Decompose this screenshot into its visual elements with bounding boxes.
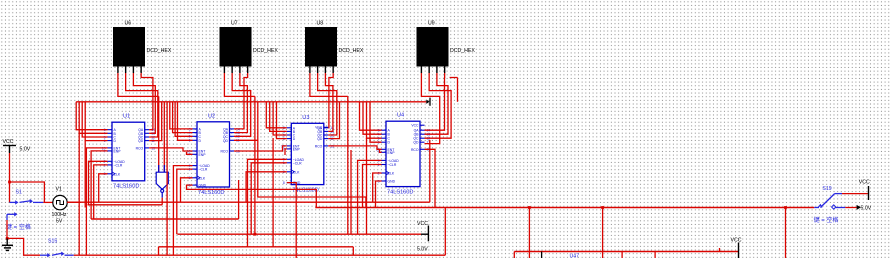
wire: U1 A-D input risers xyxy=(76,102,107,141)
wire: U4 RCO stub xyxy=(425,149,436,207)
wire: bottom bus y=255.2 xyxy=(79,254,446,256)
wire: bus y=251.5 (U47 top) xyxy=(514,251,738,253)
wire: junction tick x=719.5 xyxy=(719,248,721,252)
power VCC for U47 xyxy=(731,238,742,258)
wire: vertical x=529.4 with junction xyxy=(528,206,531,209)
wire: VCC to S1 xyxy=(9,153,11,202)
svg-text:键 = 空格: 键 = 空格 xyxy=(6,223,31,231)
wire: U2 RCO to U3 ENT/ENP xyxy=(234,146,287,155)
svg-text:QD: QD xyxy=(317,137,323,141)
switch S1 (SPDT) xyxy=(7,190,43,221)
power VCC (top left) 5.0V xyxy=(3,139,31,153)
NAND gate (reset logic) xyxy=(156,96,168,204)
svg-text:QD: QD xyxy=(223,139,229,143)
wire: U2 A-D input risers xyxy=(170,102,193,141)
wire: U1 ENT feed xyxy=(86,148,107,255)
wire: display U9 pin1 run y=96.4 xyxy=(421,73,439,144)
wire: vertical x=158.5 xyxy=(158,247,160,255)
wire: vertical x=515 xyxy=(513,252,515,258)
switch S15 xyxy=(40,239,74,258)
svg-text:S1: S1 xyxy=(16,190,22,196)
wire: long vertical x=79.2 down to bottom bus xyxy=(78,133,80,255)
wire: U4 outputs to display U9 staircase xyxy=(425,73,452,138)
wire: S1 to ground xyxy=(6,220,8,238)
svg-text:U2: U2 xyxy=(208,113,215,119)
counter U1 74LS160D xyxy=(102,114,155,190)
wire: vertical drop x=347.8 xyxy=(347,96,349,234)
svg-text:DCD_HEX: DCD_HEX xyxy=(450,48,475,54)
label key=space for S1 xyxy=(6,223,31,231)
wire: clock bus y=202.2 xyxy=(67,201,430,203)
input terminal arrow 5.0V xyxy=(857,205,872,212)
wire: U2 GND pin route xyxy=(187,185,317,207)
off-page connector arrow at end of bus xyxy=(426,100,429,104)
wire: vertical x=167.1 (bundle continuation) xyxy=(166,102,168,255)
svg-text:5.0V: 5.0V xyxy=(417,247,428,253)
wire: vertical x=366.5 continuation xyxy=(366,138,368,234)
wire: vertical drop x=254.9 xyxy=(254,96,256,234)
wire: U4 GND pin route xyxy=(376,181,382,208)
svg-text:U4: U4 xyxy=(397,113,404,119)
svg-text:QD: QD xyxy=(413,141,419,145)
ground symbol xyxy=(2,238,13,250)
svg-text:RCO: RCO xyxy=(315,144,323,148)
wire: bus y=246.8 xyxy=(159,246,354,248)
wire: NAND output horizontal y=204.8 xyxy=(88,204,163,206)
hex display U9 (DCD_HEX) xyxy=(417,21,475,74)
wire: S19 top throw to VCC xyxy=(842,193,868,195)
wire: U2 ~LOAD/~CLR/CLK feeds xyxy=(173,166,192,256)
svg-text:74LS160D: 74LS160D xyxy=(198,190,224,196)
svg-text:DCD_HEX: DCD_HEX xyxy=(147,48,172,54)
counter U2 74LS160D xyxy=(187,113,240,196)
wire: vertical x=787 with junction xyxy=(784,206,787,209)
wire: vertical x=238.6 xyxy=(238,180,240,219)
wire: vertical x=353.3 xyxy=(352,247,354,255)
wire: U3 A-D input risers xyxy=(266,102,287,139)
svg-text:S15: S15 xyxy=(48,239,57,245)
wire: bus y=207.5 to S19 xyxy=(315,207,814,209)
svg-text:V1: V1 xyxy=(56,187,62,193)
wire: display U8 pin1 run y=96.4 xyxy=(310,73,348,96)
power VCC right xyxy=(859,180,870,201)
svg-text:S19: S19 xyxy=(822,186,831,192)
wire: U3 RCO to U4 ENT/ENP xyxy=(328,146,381,152)
svg-text:~CLR: ~CLR xyxy=(388,163,397,167)
wire: U3 outputs to display U8 staircase xyxy=(318,73,340,139)
wire: vertical x=602.6 with junction xyxy=(601,206,604,209)
wire: S1 over-route to VCC drop xyxy=(10,182,45,202)
svg-text:VCC: VCC xyxy=(417,221,428,227)
wire: U9 p4 extra jog x=457.5 xyxy=(450,77,458,79)
hex display U8 (DCD_HEX) xyxy=(306,21,364,74)
clock source V1 100Hz 5V xyxy=(52,187,68,225)
wire: display U6 pin1 run y=96.4 xyxy=(118,73,159,96)
wire: U4 A-D input risers xyxy=(360,102,382,142)
wire: vertical x=445.3 (bottom bus riser) xyxy=(444,208,446,256)
svg-text:GND: GND xyxy=(199,184,207,188)
chip U47 (cut off at bottom) xyxy=(542,252,580,258)
svg-text:ENP: ENP xyxy=(388,151,396,155)
svg-text:74LS160D: 74LS160D xyxy=(113,184,139,190)
svg-text:U6: U6 xyxy=(125,21,132,27)
wire: U3 ~LOAD/~CLR/CLK feeds xyxy=(246,159,287,247)
svg-text:U7: U7 xyxy=(231,21,238,27)
wire: U1 outputs to display U6 staircase xyxy=(126,73,162,141)
svg-text:8: 8 xyxy=(283,181,285,185)
svg-text:RCO: RCO xyxy=(136,146,144,150)
wire: bus y=219 xyxy=(91,218,239,220)
wire: vertical x=429.8 xyxy=(429,140,431,202)
svg-text:VCC: VCC xyxy=(3,139,14,145)
svg-text:RCO: RCO xyxy=(220,150,228,154)
svg-text:QD: QD xyxy=(138,139,144,143)
svg-text:VCC: VCC xyxy=(411,123,419,127)
wire: U2 outputs to display U7 staircase xyxy=(232,73,258,140)
wire: long vertical x=85.2 down to bus B xyxy=(84,140,86,207)
wire: main horizontal bus y=101.8 xyxy=(76,101,426,103)
wire: U3 GND pin route xyxy=(287,183,296,258)
svg-text:5.0V: 5.0V xyxy=(20,147,31,153)
svg-text:ENP: ENP xyxy=(199,153,207,157)
wire: vertical x=622.1 xyxy=(621,252,623,258)
svg-text:RCO: RCO xyxy=(411,148,419,152)
wire: U1 ~LOAD/~CLR/CLK feeds xyxy=(89,161,108,219)
svg-text:U8: U8 xyxy=(317,21,324,27)
svg-text:ENP: ENP xyxy=(114,149,122,153)
svg-text:74LS160D: 74LS160D xyxy=(387,189,413,195)
wire: U1 RCO to U2 ENT/ENP xyxy=(149,148,192,154)
hex display U6 (DCD_HEX) xyxy=(114,21,172,74)
wire: U4 ~LOAD/~CLR/CLK feeds xyxy=(358,160,382,234)
wire: vertical x=351 xyxy=(350,150,352,234)
wire: vertical x=273.1 continuation xyxy=(272,138,274,247)
wire: ground junction to bottom bus xyxy=(7,238,40,255)
svg-text:100Hz: 100Hz xyxy=(52,212,67,218)
svg-text:VCC: VCC xyxy=(731,238,742,244)
wire: U3 area jog y=197.0 xyxy=(258,140,366,207)
wire: bus y=234.2 to VCC stem xyxy=(178,233,422,235)
power VCC mid-bottom 5.0V xyxy=(417,221,428,253)
svg-text:5.0V: 5.0V xyxy=(861,206,872,212)
wire: U1 ENP feed xyxy=(91,151,107,219)
svg-text:5V: 5V xyxy=(56,219,63,225)
svg-text:VCC: VCC xyxy=(859,180,870,186)
label key=space for S19 xyxy=(814,216,839,224)
svg-text:U3: U3 xyxy=(302,115,309,121)
svg-text:~CLR: ~CLR xyxy=(114,163,123,167)
wire: V1 output xyxy=(67,201,81,203)
svg-text:GND: GND xyxy=(388,180,396,184)
wire: S15 to bottom bus xyxy=(74,254,79,256)
hex display U7 (DCD_HEX) xyxy=(220,21,278,74)
switch S19 (SPDT) xyxy=(814,186,845,209)
svg-text:U9: U9 xyxy=(428,21,435,27)
svg-text:DCD_HEX: DCD_HEX xyxy=(339,48,364,54)
svg-text:键 = 空格: 键 = 空格 xyxy=(814,216,839,224)
svg-text:U47: U47 xyxy=(570,254,580,258)
wire: S1 to V1 xyxy=(43,201,53,203)
svg-text:U1: U1 xyxy=(123,114,130,120)
wire: S19 bottom throw to 5.0V terminal xyxy=(845,207,856,209)
svg-text:ENP: ENP xyxy=(293,147,301,151)
wire: vertical x=655.1 xyxy=(654,252,656,258)
counter U3 74LS160D xyxy=(281,115,334,194)
svg-text:~CLR: ~CLR xyxy=(293,161,302,165)
svg-text:DCD_HEX: DCD_HEX xyxy=(253,48,278,54)
svg-text:VCC: VCC xyxy=(315,126,323,130)
counter U4 74LS160D xyxy=(376,113,431,196)
wire: display U7 pin1 run y=96.4 xyxy=(224,73,255,96)
svg-text:~CLR: ~CLR xyxy=(199,168,208,172)
